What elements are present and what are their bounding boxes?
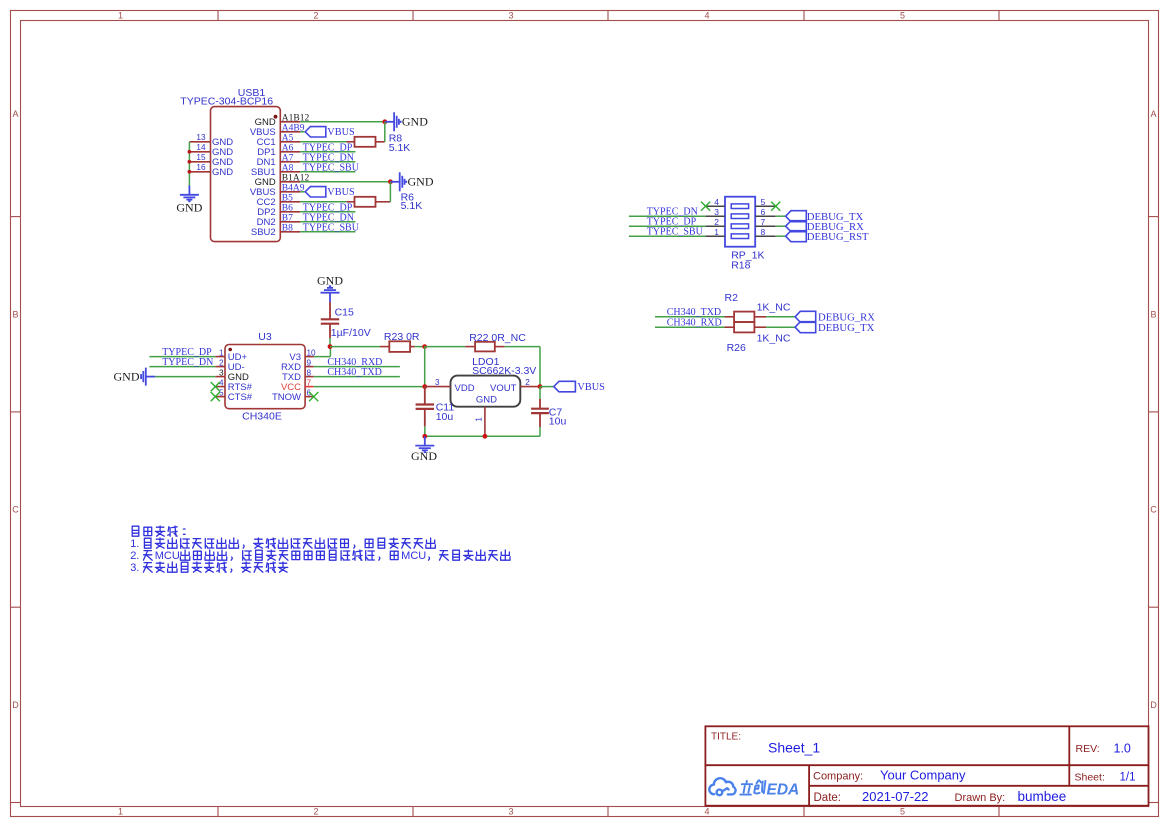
svg-text:5.1K: 5.1K xyxy=(389,142,411,154)
svg-text:6: 6 xyxy=(761,207,766,217)
svg-text:bumbee: bumbee xyxy=(1018,789,1067,804)
svg-text:1: 1 xyxy=(118,11,123,21)
svg-text:TITLE:: TITLE: xyxy=(711,732,741,743)
svg-text:TYPEC_DN: TYPEC_DN xyxy=(162,357,213,368)
svg-text:2: 2 xyxy=(525,378,530,387)
svg-text:R18: R18 xyxy=(731,260,750,272)
svg-text:R23 0R: R23 0R xyxy=(384,331,420,343)
svg-text:SC662K-3.3V: SC662K-3.3V xyxy=(472,365,536,377)
svg-text:Date:: Date: xyxy=(814,792,842,804)
svg-text:16: 16 xyxy=(196,163,206,172)
svg-text:VBUS: VBUS xyxy=(327,187,355,198)
svg-text:TNOW: TNOW xyxy=(272,392,301,403)
svg-text:B7: B7 xyxy=(282,214,293,224)
svg-text:TYPEC_SBU: TYPEC_SBU xyxy=(647,227,704,238)
svg-text:B: B xyxy=(12,309,18,319)
svg-text:Drawn By:: Drawn By: xyxy=(955,792,1006,804)
svg-text:10u: 10u xyxy=(549,416,567,428)
svg-text:VDD: VDD xyxy=(455,383,475,394)
svg-text:TYPEC_SBU: TYPEC_SBU xyxy=(303,222,360,233)
svg-text:13: 13 xyxy=(196,133,206,142)
svg-text:7: 7 xyxy=(761,217,766,227)
svg-text:8: 8 xyxy=(761,227,766,237)
svg-text:10u: 10u xyxy=(436,411,454,423)
svg-text:D: D xyxy=(1150,700,1157,710)
svg-text:VOUT: VOUT xyxy=(490,383,517,394)
svg-text:B5: B5 xyxy=(282,194,293,204)
svg-text:2: 2 xyxy=(714,217,719,227)
svg-text:VBUS: VBUS xyxy=(577,382,605,393)
svg-text:1.0: 1.0 xyxy=(1114,742,1131,756)
svg-text:B6: B6 xyxy=(282,204,293,214)
svg-text:A6: A6 xyxy=(282,144,294,154)
svg-text:GND: GND xyxy=(408,175,434,189)
svg-text:SBU2: SBU2 xyxy=(251,227,276,238)
svg-text:CTS#: CTS# xyxy=(228,392,253,403)
svg-text:GND: GND xyxy=(476,395,497,406)
svg-text:4: 4 xyxy=(714,197,719,207)
svg-text:5: 5 xyxy=(900,807,905,817)
svg-text:EDA: EDA xyxy=(767,782,800,799)
svg-text:CH340_TXD: CH340_TXD xyxy=(327,367,381,378)
svg-text:A: A xyxy=(1150,109,1156,119)
svg-text:5: 5 xyxy=(761,197,766,207)
svg-text:CH340_TXD: CH340_TXD xyxy=(667,307,721,318)
svg-text:2021-07-22: 2021-07-22 xyxy=(862,789,929,804)
svg-text:R26: R26 xyxy=(727,342,746,354)
svg-text:U3: U3 xyxy=(258,331,272,343)
svg-text:1.: 1. xyxy=(130,538,139,550)
svg-text:A7: A7 xyxy=(282,154,294,164)
svg-text:5: 5 xyxy=(900,11,905,21)
svg-text:MCU: MCU xyxy=(155,550,180,562)
svg-text:GND: GND xyxy=(411,449,437,463)
svg-text:4: 4 xyxy=(704,11,709,21)
svg-text:1K_NC: 1K_NC xyxy=(757,302,791,314)
svg-text:C15: C15 xyxy=(335,306,354,318)
svg-text:1: 1 xyxy=(475,417,484,422)
svg-text:TYPEC_SBU: TYPEC_SBU xyxy=(303,162,360,173)
svg-text:2: 2 xyxy=(313,807,318,817)
svg-text:CH340_RXD: CH340_RXD xyxy=(667,318,722,329)
svg-text:1µF/10V: 1µF/10V xyxy=(331,327,371,339)
svg-text:GND: GND xyxy=(176,201,202,215)
svg-text:B: B xyxy=(1150,309,1156,319)
svg-text:C: C xyxy=(12,505,19,515)
svg-text:R22 0R_NC: R22 0R_NC xyxy=(469,332,526,344)
svg-text:5.1K: 5.1K xyxy=(401,200,423,212)
svg-text:1: 1 xyxy=(714,227,719,237)
svg-text:CH340E: CH340E xyxy=(242,411,282,423)
svg-text:Sheet:: Sheet: xyxy=(1075,772,1105,784)
svg-text:1: 1 xyxy=(118,807,123,817)
svg-text:3: 3 xyxy=(435,378,440,387)
svg-text:C: C xyxy=(1150,505,1157,515)
svg-text:VBUS: VBUS xyxy=(327,127,355,138)
svg-text:GND: GND xyxy=(317,274,343,288)
svg-text:B8: B8 xyxy=(282,224,293,234)
svg-text:GND: GND xyxy=(114,369,140,383)
svg-text:TYPEC-304-BCP16: TYPEC-304-BCP16 xyxy=(180,96,273,108)
svg-text:D: D xyxy=(12,700,19,710)
svg-text:A5: A5 xyxy=(282,134,294,144)
svg-text:3: 3 xyxy=(508,11,513,21)
svg-text:R2: R2 xyxy=(725,292,739,304)
svg-text:GND: GND xyxy=(212,167,233,178)
svg-text:3: 3 xyxy=(714,207,719,217)
svg-text:A: A xyxy=(12,109,18,119)
svg-text:A8: A8 xyxy=(282,164,294,174)
svg-text:3: 3 xyxy=(508,807,513,817)
svg-text:Company:: Company: xyxy=(813,770,863,782)
svg-text:2: 2 xyxy=(313,11,318,21)
svg-text:GND: GND xyxy=(402,115,428,129)
svg-text:Your Company: Your Company xyxy=(880,767,966,782)
svg-text:REV:: REV: xyxy=(1076,743,1100,755)
svg-text:3.: 3. xyxy=(130,562,139,574)
svg-text:DEBUG_RST: DEBUG_RST xyxy=(807,231,869,243)
svg-text:14: 14 xyxy=(196,143,206,152)
svg-text:1K_NC: 1K_NC xyxy=(757,333,791,345)
svg-text:Sheet_1: Sheet_1 xyxy=(768,740,820,756)
svg-text:4: 4 xyxy=(704,807,709,817)
svg-text:15: 15 xyxy=(196,153,206,162)
svg-text:DEBUG_TX: DEBUG_TX xyxy=(818,322,875,334)
svg-text:MCU: MCU xyxy=(401,550,426,562)
svg-text:2.: 2. xyxy=(130,550,139,562)
svg-text:1/1: 1/1 xyxy=(1120,772,1136,784)
